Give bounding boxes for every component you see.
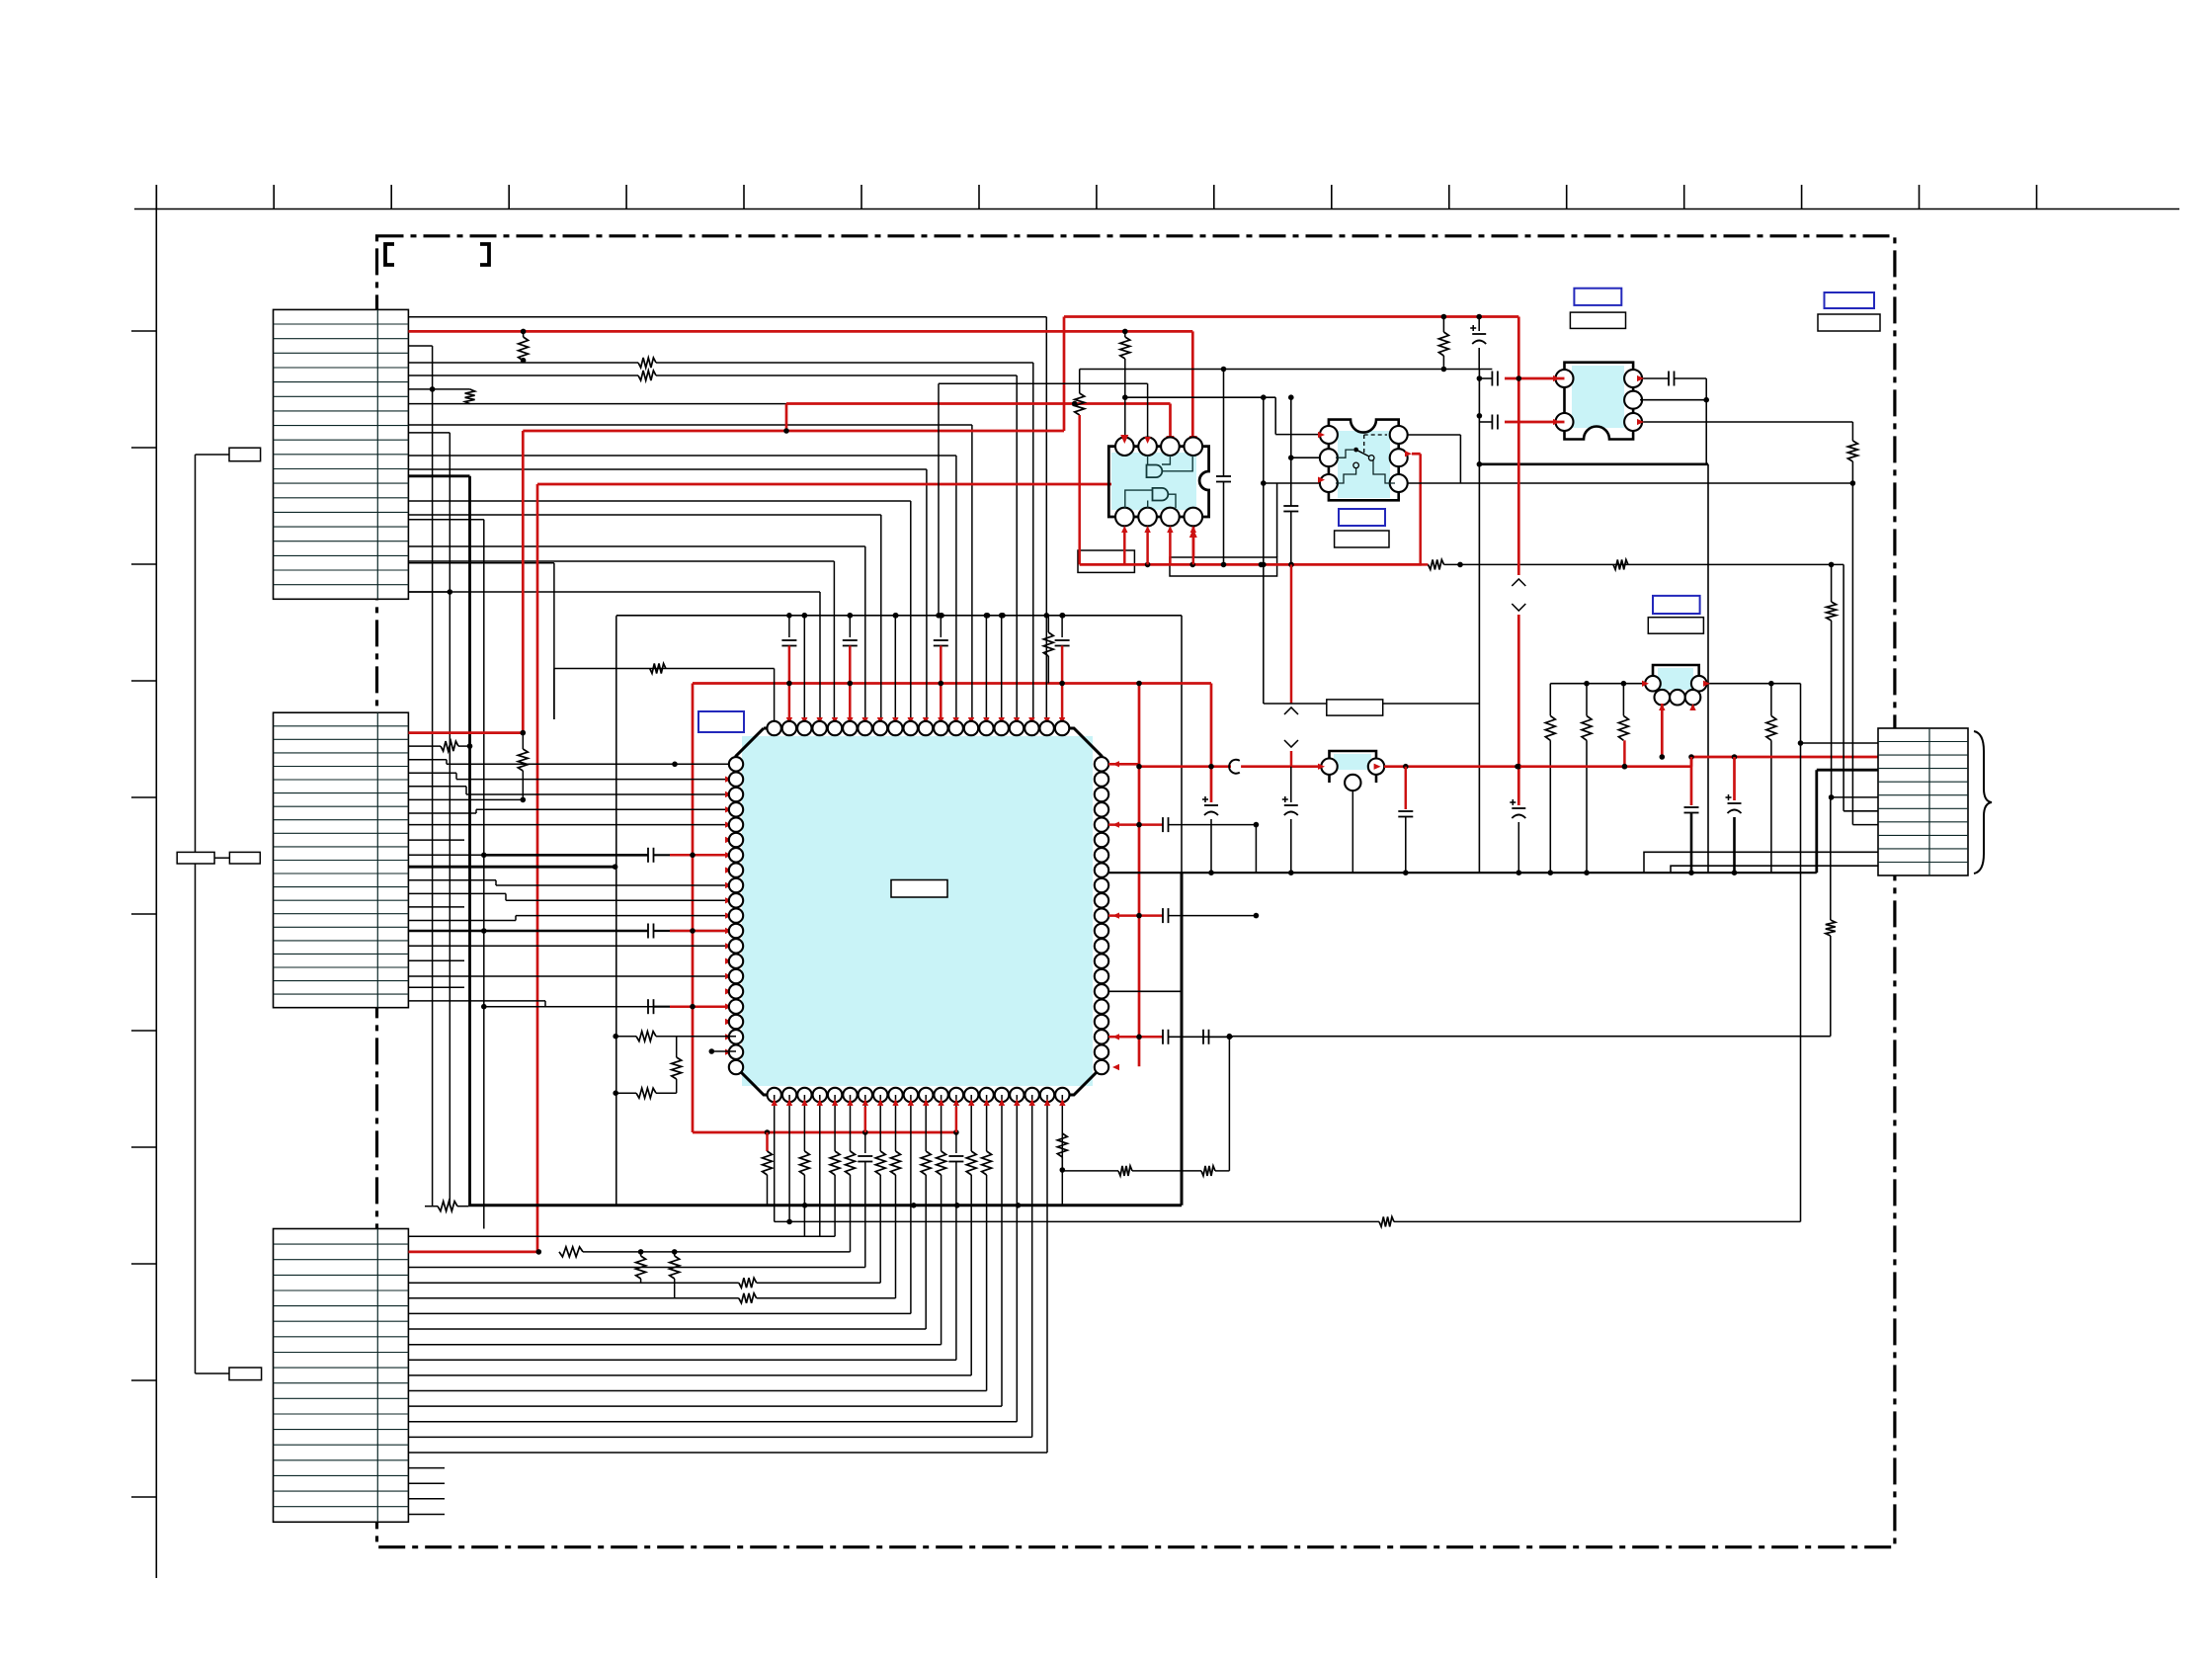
wire CN2 row3 + resistor: [408, 745, 441, 747]
ruler tick: [1331, 185, 1333, 209]
wire U1 bottom pin5 down: [834, 1095, 836, 1132]
U1 right pin: [1095, 802, 1108, 816]
wire CN1 row3 down: [408, 345, 432, 347]
red arrow U1 bottom pin: [908, 1099, 914, 1106]
resistor lower: [615, 1092, 636, 1094]
red arrow U1 bottom pin: [877, 1099, 883, 1106]
cap 1712: [1684, 806, 1699, 808]
ruler tick: [1919, 185, 1921, 209]
red arrow U1 top pin: [1028, 717, 1034, 724]
U1 top pin: [812, 721, 826, 735]
red arrow U1 left pin: [725, 958, 732, 964]
wire stubs CN2: [408, 839, 464, 841]
board outline frame (dash-dot): [377, 236, 1895, 1547]
ecap 1755: [1728, 802, 1742, 804]
U3 pin right: [1390, 449, 1408, 466]
ruler tick: [508, 185, 510, 209]
wire vertical right of U1: [1255, 825, 1257, 874]
wire stub to U1 top pin: [1001, 616, 1003, 728]
U1 right pin: [1095, 1045, 1108, 1059]
U1 top pin: [873, 721, 887, 735]
U1 bottom pin: [1010, 1088, 1024, 1102]
wire CN3 row11 to U1 bottom pin15: [986, 1206, 988, 1391]
red net C: [536, 484, 539, 1252]
ruler tick: [860, 185, 862, 209]
IC U3 body: [1338, 431, 1390, 498]
wire U1 pin4 down: [819, 1206, 821, 1237]
wire U1 bottom pin9 down: [895, 1095, 897, 1132]
red wire into U4 pin L1: [1517, 317, 1520, 423]
U1 left pin: [729, 802, 743, 816]
red arrow U1 bottom pin: [786, 1099, 792, 1106]
U5 label box: [1648, 618, 1703, 634]
vertical 1822 long: [1800, 684, 1802, 1222]
wire into U3 pin3 left: [1264, 482, 1320, 484]
red bus y571: [1080, 563, 1422, 566]
wire CN1 row to U1 pin14: [408, 424, 972, 426]
U1 right pin: [1095, 1015, 1108, 1029]
resistor in row: [408, 1297, 738, 1299]
red arrow U1 top pin: [877, 717, 883, 724]
resistor below U1: [970, 1132, 972, 1151]
U1 left pin: [729, 893, 743, 907]
U1 bottom pin: [949, 1088, 963, 1102]
U1 top pin: [1040, 721, 1054, 735]
resistor vertical 684: [676, 1037, 678, 1057]
red arrow U1 bottom pin: [817, 1099, 823, 1106]
U1 top pin: [1055, 721, 1069, 735]
curly brace CN4: [1974, 731, 1992, 874]
U1 left pin: [729, 772, 743, 786]
red arrow U1 left pin: [725, 928, 732, 934]
red arrow right pin21: [1112, 1064, 1119, 1070]
U1 top pin: [919, 721, 933, 735]
wire U1 bottom pin17 down: [1016, 1095, 1018, 1132]
red arrow U1 bottom pin: [953, 1099, 959, 1106]
capacitor to U1 top pin: [1061, 616, 1063, 637]
U2 pin top: [1185, 437, 1203, 456]
red arrow U1 left pin: [725, 1004, 732, 1010]
red continues down: [1517, 422, 1520, 575]
red arrow U1 top pin: [968, 717, 974, 724]
wire CN3 row6 to U1 bottom pin10: [910, 1206, 912, 1314]
cap at 1307: [1290, 397, 1292, 506]
cap into U4 L1: [1491, 372, 1493, 386]
red wire U3 pin2R: [1412, 453, 1421, 456]
wire stub to U1 top pin: [803, 616, 805, 728]
U1 bottom pin: [964, 1088, 978, 1102]
U1 top pin: [767, 721, 780, 735]
U1 bottom pin: [873, 1088, 887, 1102]
U1 right pin: [1095, 924, 1108, 938]
bus above U1: [616, 615, 1182, 617]
ruler tick: [625, 185, 627, 209]
U1 left pin: [729, 1000, 743, 1014]
wire down to cap-pair line: [1830, 797, 1832, 920]
arrows U5: [1642, 681, 1649, 687]
red arrow U1 left pin: [725, 973, 732, 979]
U3 pin left: [1320, 474, 1338, 492]
IC U4 body: [1572, 366, 1624, 428]
U3 pin left: [1320, 426, 1338, 444]
U2 pin top: [1138, 437, 1157, 456]
wire CN2 row14 to U1 left pin10: [408, 892, 506, 894]
U1 left pin: [729, 955, 743, 968]
U2 gate 1: [1147, 465, 1163, 478]
stub dot U1 left pin1: [672, 762, 678, 768]
red arrow U1 top pin: [1044, 717, 1050, 724]
red arrow U1 bottom pin: [938, 1099, 943, 1106]
U1 bottom pin: [859, 1088, 872, 1102]
wire CN1 row to U1 pin18: [408, 362, 638, 364]
resistor: [638, 371, 656, 380]
red arrow U1 left pin: [725, 1049, 732, 1055]
U4 right pin3 loop: [1640, 421, 1852, 423]
wire CN1 row to U1 pin4: [408, 591, 820, 593]
wire CN2 row16 to U1 left pin11: [408, 920, 516, 922]
U1 right pin: [1095, 772, 1108, 786]
wire: [1276, 483, 1278, 557]
U1 bottom pin: [782, 1088, 796, 1102]
red arrow U1 top pin: [801, 717, 807, 724]
wire U1 bottom pin18 down: [1031, 1095, 1033, 1132]
ruler tick: [131, 1263, 156, 1265]
red risers to U2 bottom pins: [1123, 530, 1126, 564]
U4 ref box blue: [1574, 289, 1621, 305]
red wire into bottom pin13: [955, 1107, 958, 1132]
vertical 1866: [1843, 564, 1844, 810]
red arrow U1 bottom pin: [968, 1099, 974, 1106]
cap at 1238: [1223, 370, 1225, 477]
U4 right pin1 cap: [1640, 377, 1669, 379]
U1 bottom pin: [904, 1088, 918, 1102]
U1 bottom pin: [919, 1088, 933, 1102]
red net A: [522, 431, 525, 733]
red wire into U4 pin L2: [1505, 421, 1565, 424]
U1 left pin: [729, 908, 743, 922]
ruler tick: [131, 1496, 156, 1498]
U1 right pin: [1095, 848, 1108, 862]
ruler tick: [2036, 185, 2038, 209]
wire CN2 row18 to U1 left pin13: [408, 945, 736, 947]
ruler tick: [743, 185, 745, 209]
wire U1 bottom pin11 down: [925, 1095, 927, 1132]
U1 top pin: [843, 721, 857, 735]
wire U1 bottom pin1 down: [774, 1095, 776, 1132]
resistor below U1: [879, 1132, 881, 1151]
ref box J2: [229, 1368, 262, 1380]
border ruler vertical: [155, 185, 157, 1578]
red wire + capacitor right pin: [1108, 914, 1163, 917]
U1 left pin: [729, 863, 743, 876]
ecap at 1497: [1478, 317, 1480, 332]
U1 bottom pin: [813, 1088, 827, 1102]
arrow U3 right pin2: [1405, 451, 1412, 457]
wire: [196, 454, 230, 456]
wire: [196, 1373, 230, 1374]
U1 right pin: [1095, 1060, 1108, 1074]
U1 right pin: [1095, 969, 1108, 983]
ruler tick: [390, 185, 392, 209]
U6 label box: [1327, 700, 1383, 715]
red arrow U1 top pin: [847, 717, 853, 724]
red arrow U1 left pin: [725, 913, 732, 919]
red arrow U1 bottom pin: [801, 1099, 807, 1106]
resistor: [559, 1247, 583, 1257]
U1 right pin: [1095, 908, 1108, 922]
wire U1 bottom pin13 down: [955, 1095, 957, 1132]
wire CN3 row13 to U1 bottom pin17: [1016, 1206, 1018, 1422]
IC U1 ref box: [698, 711, 744, 732]
IC U1 outline: [736, 728, 1102, 1095]
red wire to IC U2 pin4: [1191, 331, 1194, 439]
wire: [910, 1132, 912, 1206]
U1 top pin: [858, 721, 871, 735]
red bus arrows / drops: [765, 1129, 771, 1135]
red arrow U1 top pin: [832, 717, 838, 724]
U1 top pin: [1024, 721, 1038, 735]
resistor: [1043, 632, 1053, 656]
resistor below U1: [834, 1132, 836, 1151]
wire: [1016, 1132, 1018, 1206]
red arrow U1 bottom pin: [847, 1099, 853, 1106]
capacitor pair right pin19: [1202, 1030, 1204, 1044]
red arrow U1 bottom pin: [984, 1099, 990, 1106]
wire U1 bottom pin14 down: [970, 1095, 972, 1132]
wire black top bus y373: [1080, 369, 1493, 371]
red arrow U1 top pin: [938, 717, 943, 724]
red wire + capacitor right pin: [1108, 823, 1163, 826]
red arrow U1 top pin: [983, 717, 989, 724]
wire CN1 row to U1 pin19: [408, 316, 1046, 318]
U1 bottom pin: [888, 1088, 902, 1102]
U3 label box: [1335, 531, 1389, 547]
wire CN2 row5 to U1 left pin2: [408, 772, 456, 774]
U1 bottom pin: [995, 1088, 1009, 1102]
vertical 1875 with resistor: [1851, 422, 1853, 441]
U1 left pin: [729, 969, 743, 983]
U2 pin bottom: [1161, 508, 1180, 527]
U1 left pin: [729, 848, 743, 862]
wire U1 pin1 long line: [774, 1206, 776, 1222]
capacitor to U1 top pin: [849, 616, 851, 637]
U5 ref box blue: [1653, 596, 1700, 614]
red riser to resistor: [1623, 740, 1626, 766]
ruler tick: [131, 913, 156, 915]
red arrow U1 bottom pin: [1029, 1099, 1035, 1106]
U2 pin top: [1161, 437, 1180, 456]
label box top-right: [1818, 314, 1880, 331]
U1 right pin: [1095, 984, 1108, 998]
cap into U4 L2: [1491, 415, 1493, 430]
wire stub CN3: [408, 1482, 445, 1484]
U1 bottom pin: [828, 1088, 842, 1102]
long vertical 1497: [1478, 370, 1480, 874]
wire CN1 row12 down thick: [408, 474, 469, 477]
IC U2 body: [1111, 453, 1196, 510]
red arrow U1 top pin: [908, 717, 914, 724]
riser 1729: [1707, 464, 1709, 873]
U1 left pin: [729, 984, 743, 998]
ref box J1: [229, 448, 261, 461]
red drop to cap 1712: [1690, 757, 1693, 805]
border ruler horizontal: [134, 208, 2179, 210]
resistor into U1 pin L19: [615, 1036, 636, 1038]
red wire CN3 row2: [408, 1251, 538, 1254]
wire CN3 row14 to U1 bottom pin18: [1031, 1206, 1033, 1438]
wire CN2 row13 to U1 left pin9: [408, 879, 496, 881]
red drop to ecap 1755: [1733, 757, 1736, 800]
red arrow U1 left pin: [725, 988, 732, 994]
red arrow U1 left pin: [725, 777, 732, 783]
wire CN2 row9 to U1 left pin5: [408, 824, 736, 826]
red arrow U1 left pin: [725, 806, 732, 812]
red jog to CN4 row2: [1690, 757, 1693, 767]
resistor below U1: [941, 1132, 942, 1151]
stub dot U1 pin L20: [711, 1050, 736, 1052]
wire cap line 1307: [1291, 457, 1320, 458]
IC U1 body fill: [742, 736, 1093, 1086]
ruler tick: [1213, 185, 1215, 209]
resistor below U1: [850, 1132, 852, 1151]
capacitor to U1 left pin: [484, 1006, 648, 1008]
wire CN2 row17 thick: [408, 930, 483, 933]
capacitor to U1 top pin: [788, 616, 790, 637]
U1 top pin: [949, 721, 963, 735]
U1 bottom pin: [979, 1088, 993, 1102]
wire riser 1244: [1228, 1037, 1230, 1171]
U1 left pin: [729, 1015, 743, 1029]
U1 left pin: [729, 1030, 743, 1043]
resistor below: [522, 733, 524, 749]
long wire y1184 with resistors: [1062, 1170, 1118, 1172]
wire CN3 row10 to U1 bottom pin14: [970, 1206, 972, 1375]
U6 pins: [1321, 759, 1337, 775]
wire CN2 row4 to U1 left pin1: [408, 759, 447, 761]
U1 left pin: [729, 939, 743, 953]
wire CN3 row2 to U1 bottom pin6: [850, 1206, 852, 1252]
wire CN3 row3 to U1 bottom pin7: [864, 1206, 866, 1268]
U1 bottom pin: [1055, 1088, 1069, 1102]
wire into U3 pin2 left: [1263, 397, 1265, 704]
wire U1 bottom pin16 down: [1001, 1095, 1003, 1132]
ruler tick: [131, 447, 156, 449]
wires CN4 rows 9 10: [1644, 852, 1878, 873]
wire CN2 row8 to U1 left pin4: [408, 812, 476, 814]
U1 top pin: [797, 721, 811, 735]
wire stub: [408, 388, 469, 390]
wire U1 bottom pin20 down: [1061, 1095, 1063, 1132]
arrows U6: [1318, 764, 1325, 770]
wire bus 712: [1264, 703, 1480, 705]
wire CN2 row20 to U1 left pin15: [408, 975, 736, 977]
wire stub CN3: [408, 1467, 445, 1469]
U1 right pin: [1095, 939, 1108, 953]
wire CN1 row to U1 pin5: [408, 560, 834, 562]
resistor: [774, 669, 776, 729]
U1 right pin: [1095, 817, 1108, 831]
capacitor below U1: [955, 1132, 957, 1153]
board name bracket right: [480, 244, 489, 265]
ecap 1307b: [1290, 767, 1292, 802]
wire U1 pin2 down: [788, 1206, 790, 1222]
resistor at 1793: [1770, 684, 1772, 716]
thick bus riser: [1181, 873, 1184, 1206]
wire stub to U1 top pin: [894, 616, 896, 728]
wire CN1 row18 down: [408, 562, 554, 564]
U1 right pin: [1095, 788, 1108, 801]
wire stub to U1 top pin: [985, 616, 987, 728]
U4 pins: [1556, 370, 1574, 387]
connector CN1: [274, 309, 409, 599]
red arrow U1 left pin: [725, 822, 732, 828]
red arrow U1 top pin: [892, 717, 898, 724]
connector CN2: [274, 712, 409, 1008]
U1 right pin: [1095, 1000, 1108, 1014]
red net B: [785, 404, 788, 432]
wire CN2 row12 thick: [408, 866, 614, 869]
resistor vert pair: [640, 1252, 642, 1256]
U1 left pin: [729, 1045, 743, 1059]
U2 gate 2: [1153, 488, 1169, 501]
wire stub CN3: [408, 1514, 445, 1516]
wire CN3 row15 to U1 bottom pin19: [1046, 1206, 1048, 1453]
wire CN2 row6 to U1 left pin3: [408, 786, 466, 788]
U1 top pin: [979, 721, 993, 735]
red wire + capacitor right pin: [1108, 1036, 1163, 1039]
wire right pin16: [1108, 990, 1182, 992]
red wire CN1 row2: [408, 330, 1192, 333]
capacitor to U1 left pin: [484, 854, 648, 857]
wire: [1031, 1132, 1033, 1206]
board name bracket left: [385, 244, 394, 265]
U1 top pin: [828, 721, 842, 735]
U1 left pin: [729, 878, 743, 892]
thick riser to CN4 row3: [1815, 770, 1818, 873]
wire CN1 row20 stub: [408, 591, 450, 593]
wire: [615, 616, 617, 1206]
wire U3 right pin1: [1407, 434, 1460, 436]
U1 bottom pin: [934, 1088, 947, 1102]
red arrow U1 left pin: [725, 882, 732, 888]
ruler tick: [131, 680, 156, 682]
red drop IC U5: [1661, 704, 1664, 757]
resistor below pin20: [1057, 1133, 1067, 1157]
U1 left pin: [729, 1060, 743, 1074]
U2 pin bottom: [1138, 508, 1157, 527]
ruler tick: [978, 185, 980, 209]
red arrow U1 left pin: [725, 791, 732, 797]
U1 bottom pin: [1025, 1088, 1039, 1102]
red arrow U1 bottom pin: [832, 1099, 838, 1106]
red end resistor: [1421, 563, 1429, 566]
IC U5 body: [1658, 668, 1693, 690]
U3 switch symbol: [1363, 435, 1365, 456]
wire CN2 row22 to U1 left pin17: [408, 1000, 545, 1002]
U3 pin right: [1390, 474, 1408, 492]
resistor trio: [1550, 683, 1645, 685]
U1 right pin: [1095, 893, 1108, 907]
ruler tick: [131, 1379, 156, 1381]
ruler tick: [273, 185, 275, 209]
U4 right pin2: [1640, 399, 1706, 401]
U1 bottom pin: [768, 1088, 781, 1102]
ruler tick: [1096, 185, 1098, 209]
U3 pin right: [1390, 426, 1408, 444]
wire CN1 row to U1 pin11: [408, 468, 927, 470]
U1 top pin: [964, 721, 978, 735]
U1 top pin: [934, 721, 947, 735]
